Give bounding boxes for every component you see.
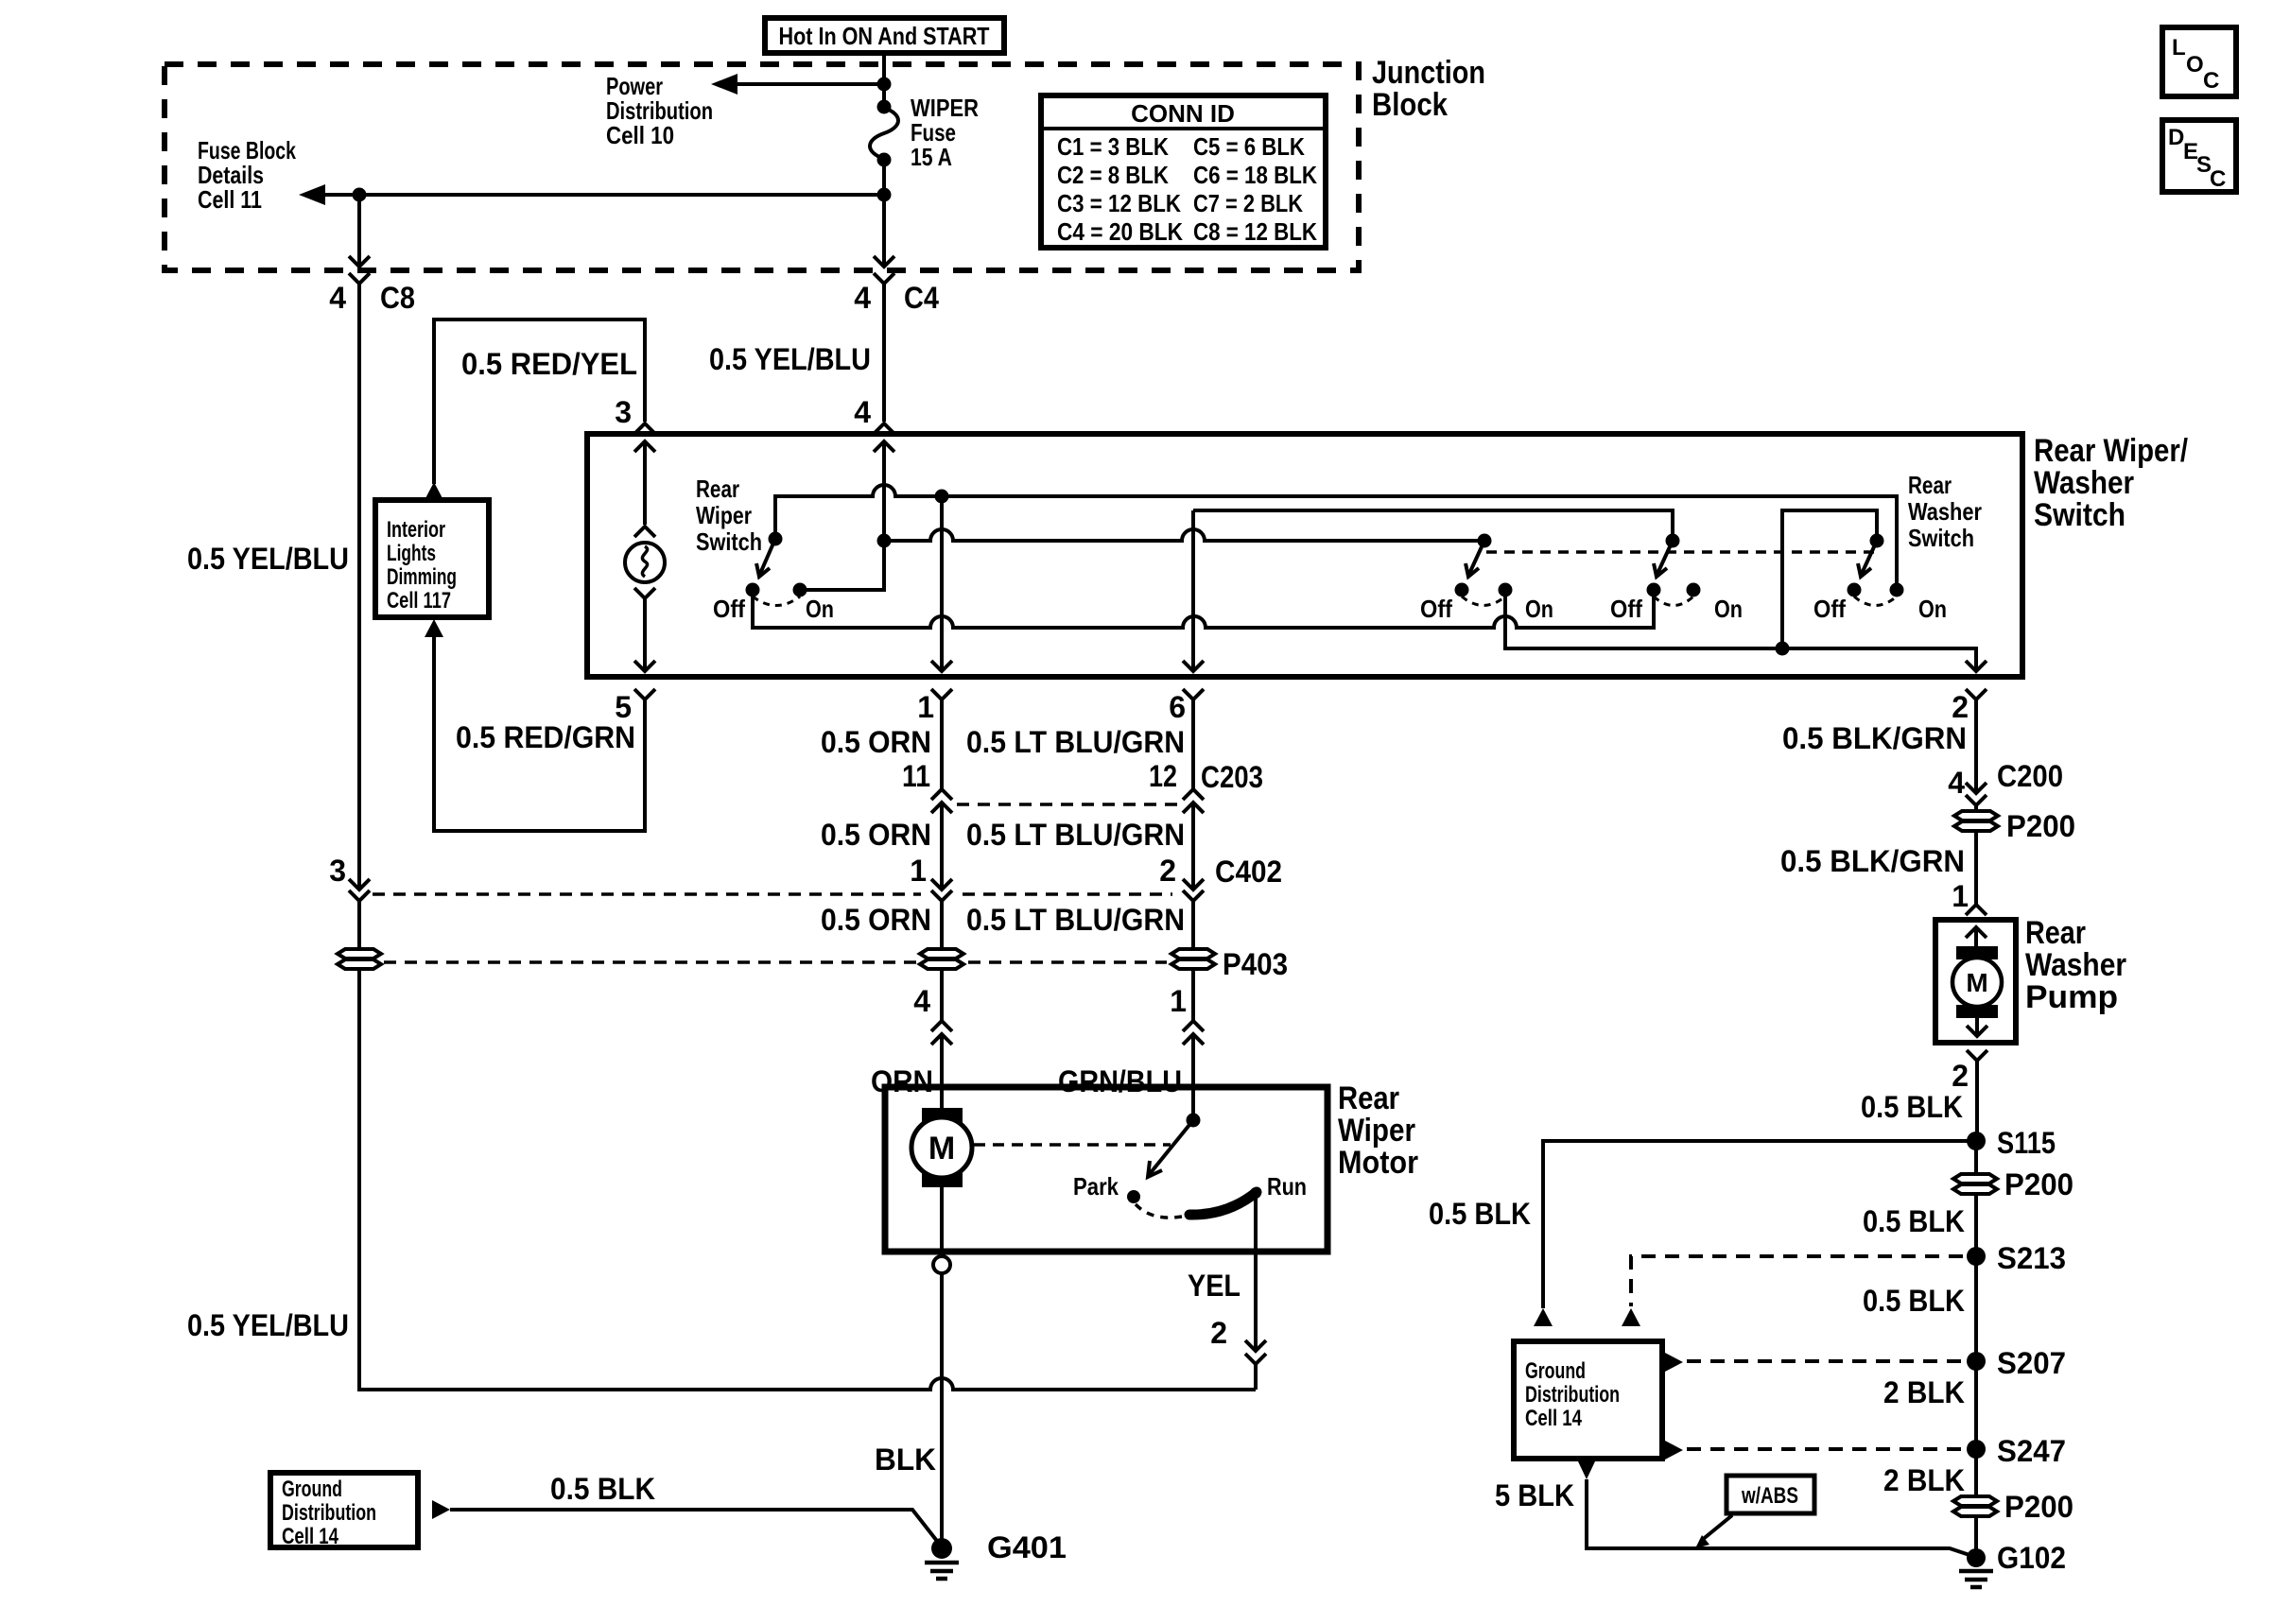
svg-text:C1 = 3 BLK: C1 = 3 BLK (1057, 132, 1169, 161)
box: Rear Wiper/Washer Switch (587, 434, 2022, 677)
connector motor pin 4 (931, 1021, 952, 1045)
switch B contacts (1610, 583, 1743, 624)
connector YEL pin 2 (1210, 1316, 1266, 1364)
svg-text:S115: S115 (1997, 1126, 2056, 1160)
svg-text:Rear: Rear (1338, 1080, 1399, 1116)
arrow down at junction block exit x935 (874, 256, 894, 267)
svg-text:P200: P200 (2006, 809, 2075, 843)
wire: fuse output down inside junction block (882, 160, 886, 267)
svg-text:Cell 117: Cell 117 (387, 588, 451, 613)
splice P403 on ORN (920, 949, 963, 969)
svg-text:Cell 11: Cell 11 (198, 185, 262, 214)
svg-text:ORN: ORN (871, 1064, 933, 1098)
svg-text:0.5 RED/YEL: 0.5 RED/YEL (461, 347, 637, 381)
svg-text:Rear: Rear (1908, 471, 1952, 499)
svg-text:Off: Off (1813, 595, 1846, 623)
node: power distribution tap (877, 78, 892, 92)
svg-text:15 A: 15 A (911, 143, 952, 171)
lamp: illumination lamp (625, 527, 665, 671)
node: rail2 junction on pin 4 (877, 534, 892, 548)
svg-text:BLK: BLK (875, 1443, 936, 1477)
svg-text:G102: G102 (1997, 1541, 2066, 1575)
wire: Off contact riser and rail 3 (hops at pin1, pin6, On-A riser) (753, 590, 1654, 628)
arrow out of ground box bottom (5 BLK) (1578, 1461, 1595, 1479)
wire: washer switch bracket to pivot C and output riser (1782, 510, 1877, 648)
svg-text:Cell 14: Cell 14 (1525, 1406, 1582, 1431)
svg-text:C8: C8 (380, 281, 415, 315)
svg-text:Motor: Motor (1338, 1145, 1418, 1181)
svg-text:1: 1 (910, 854, 927, 888)
svg-text:C: C (2203, 68, 2219, 94)
switch B arm (1654, 541, 1673, 577)
label: Rear Washer Switch (1908, 471, 1982, 552)
svg-text:0.5 BLK: 0.5 BLK (1429, 1197, 1531, 1231)
svg-text:1: 1 (1170, 984, 1187, 1018)
wire: pin 1 ORN down to C203 (940, 700, 944, 789)
svg-text:Wiper: Wiper (696, 501, 752, 529)
label box: w/ABS (1726, 1476, 1814, 1513)
dashed linkage between ganged switches (1486, 550, 1877, 554)
connector C402 pin 2 (1159, 854, 1204, 901)
wire: to S213 (1974, 1194, 1978, 1256)
park/run switch common (1148, 1087, 1201, 1177)
connector C203 pin 11 (902, 759, 952, 813)
connector C4 pin 4 (854, 273, 939, 315)
svg-text:Ground: Ground (1525, 1358, 1586, 1384)
svg-text:0.5 BLK/GRN: 0.5 BLK/GRN (1782, 721, 1967, 755)
wire: LT BLU/GRN C203 to C402 (1191, 803, 1195, 890)
svg-text:Park: Park (1073, 1172, 1119, 1201)
svg-text:5 BLK: 5 BLK (1495, 1478, 1574, 1512)
svg-text:C5 = 6 BLK: C5 = 6 BLK (1193, 132, 1305, 161)
node: fuse block tap (353, 188, 367, 202)
dashed pass-through line P403 (384, 960, 1167, 964)
svg-text:0.5 BLK: 0.5 BLK (1863, 1284, 1965, 1318)
arrow down at junction block exit x380 (349, 256, 370, 267)
wire: 0.5 RED/GRN loop pin 5 to Interior Lights box bottom (434, 637, 645, 831)
wire: 5 BLK to G102 (1587, 1479, 1972, 1556)
splice P403 on LT BLU/GRN (1171, 949, 1215, 969)
switch C arm (1858, 541, 1877, 577)
label: Rear Wiper Motor (1338, 1080, 1418, 1181)
wire: YEL/BLU below C402 (357, 901, 361, 951)
wire: LT BLU/GRN C402 to P403 (1191, 901, 1195, 951)
ground G102 (1959, 1541, 2066, 1587)
svg-text:Cell 10: Cell 10 (606, 121, 674, 149)
wire: S213 to S207 (1974, 1256, 1978, 1361)
svg-text:C203: C203 (1201, 760, 1263, 794)
svg-text:4: 4 (854, 281, 871, 315)
svg-text:L: L (2172, 35, 2186, 60)
dashed mechanical link motor to park switch (974, 1143, 1171, 1147)
wire: GRN/BLU into motor box (1191, 1034, 1195, 1087)
dashed connector line C203 (957, 803, 1178, 806)
rear wiper switch pivot riser and rail 1 (hop over pin4, to On-C) (775, 485, 1897, 590)
svg-text:0.5 YEL/BLU: 0.5 YEL/BLU (187, 542, 349, 576)
svg-text:0.5 ORN: 0.5 ORN (821, 725, 931, 759)
wire: ORN P403 to motor connector (940, 969, 944, 1021)
svg-text:12: 12 (1149, 759, 1177, 793)
wire: pin 2 BLK/GRN down to C200 (1974, 700, 1978, 793)
arrow up into Interior Lights box top (425, 482, 443, 500)
svg-text:P200: P200 (2004, 1490, 2073, 1524)
wire to P200 (1974, 805, 1978, 815)
box: Ground Distribution Cell 14 (left) (270, 1473, 418, 1549)
ground G401 (925, 1530, 1067, 1579)
wire pin 3 inside box with up arrow (634, 441, 655, 525)
pump motor symbol (1952, 927, 2002, 1036)
svg-text:C6 = 18 BLK: C6 = 18 BLK (1193, 161, 1317, 189)
svg-text:Dimming: Dimming (387, 564, 457, 590)
svg-text:YEL: YEL (1188, 1269, 1241, 1303)
connector pin 3 at switch box top (615, 395, 655, 434)
svg-text:Rear: Rear (696, 475, 739, 503)
arrow up into Interior Lights box bottom (425, 619, 443, 637)
svg-text:Washer: Washer (2034, 465, 2134, 501)
label: Rear Washer Pump (2025, 915, 2126, 1015)
run contact (thick arc) (1189, 1172, 1307, 1215)
wire: YEL from Run contact (1254, 1193, 1258, 1351)
svg-text:0.5 RED/GRN: 0.5 RED/GRN (456, 720, 635, 754)
svg-text:4: 4 (1948, 766, 1965, 800)
dashed wire to S207 (1687, 1359, 1963, 1363)
svg-text:0.5 BLK/GRN: 0.5 BLK/GRN (1780, 844, 1965, 878)
switch C pivot (rear washer switch) (1870, 534, 1884, 548)
splice S213 (1967, 1241, 2066, 1275)
svg-text:2: 2 (1159, 854, 1176, 888)
splice P200 (bottom) (1953, 1490, 2073, 1524)
svg-text:0.5 YEL/BLU: 0.5 YEL/BLU (709, 342, 871, 376)
svg-text:Washer: Washer (2025, 947, 2126, 983)
rear wiper switch arm (756, 539, 775, 577)
motor M symbol (911, 1087, 972, 1252)
connector pump pin 1 (1952, 879, 1987, 915)
wire arrow to Power Distribution (711, 74, 884, 95)
svg-text:Distribution: Distribution (282, 1500, 376, 1526)
arrow down pin 2 inside box (1966, 661, 1987, 671)
svg-text:w/ABS: w/ABS (1741, 1483, 1798, 1509)
svg-text:GRN/BLU: GRN/BLU (1058, 1064, 1182, 1098)
svg-text:Washer: Washer (1908, 497, 1982, 526)
svg-text:Rear Wiper/: Rear Wiper/ (2034, 433, 2188, 469)
connector pump pin 2 (1952, 1050, 1987, 1093)
svg-text:Interior: Interior (387, 517, 445, 543)
splice S207 (1967, 1346, 2066, 1380)
wire: On contact to pin 4 vertical (800, 441, 884, 590)
svg-text:S207: S207 (1997, 1346, 2066, 1380)
arrow down pin 1 inside box (931, 661, 952, 671)
svg-text:0.5 YEL/BLU: 0.5 YEL/BLU (187, 1308, 349, 1342)
svg-text:C7 = 2 BLK: C7 = 2 BLK (1193, 189, 1303, 217)
connector pin 6 below box (1169, 689, 1204, 724)
svg-text:1: 1 (917, 690, 934, 724)
svg-text:Block: Block (1372, 87, 1448, 123)
wire arrow to Fuse Block Details (299, 184, 884, 205)
splice P200 (middle) (1953, 1167, 2073, 1201)
splice P200 (top) (1954, 809, 2075, 843)
wire: BLK from motor to G401 (940, 1252, 944, 1541)
CONN ID table (1041, 95, 1326, 248)
label: Rear Wiper Switch (696, 475, 762, 556)
svg-text:4: 4 (854, 395, 871, 429)
dashed wire to S247 (1687, 1447, 1963, 1451)
switch A contacts (1420, 583, 1553, 624)
LOC box (2162, 27, 2236, 96)
svg-text:2 BLK: 2 BLK (1883, 1463, 1965, 1497)
svg-text:0.5 LT BLU/GRN: 0.5 LT BLU/GRN (966, 725, 1185, 759)
svg-text:2 BLK: 2 BLK (1883, 1375, 1965, 1409)
arrow from left ground box (432, 1500, 450, 1519)
connector pin 2 below box (1952, 689, 1987, 724)
svg-text:Cell 14: Cell 14 (282, 1524, 338, 1549)
wire: 0.5 YEL/BLU from C8 down left side (357, 284, 361, 890)
connector C8 pin 4 (329, 273, 415, 315)
svg-text:G401: G401 (987, 1530, 1067, 1564)
svg-text:0.5 BLK: 0.5 BLK (550, 1472, 655, 1506)
svg-text:S213: S213 (1997, 1241, 2066, 1275)
wire: BLK/GRN to pump (1974, 831, 1978, 905)
svg-text:3: 3 (615, 395, 632, 429)
svg-text:Ground: Ground (282, 1477, 342, 1502)
svg-text:Switch: Switch (696, 527, 762, 556)
svg-text:0.5 LT BLU/GRN: 0.5 LT BLU/GRN (966, 818, 1185, 852)
switch A pivot (1478, 534, 1492, 548)
connector pin 1 below box (917, 689, 952, 724)
svg-text:M: M (1966, 968, 1987, 997)
svg-text:11: 11 (902, 759, 930, 793)
wire: On-A output to pin 2 (1505, 590, 1976, 671)
node: fuse output (877, 188, 892, 202)
switch C contacts (1813, 583, 1947, 624)
wire: pin 6 LT BLU/GRN down to C203 (1191, 700, 1195, 789)
svg-text:Rear: Rear (2025, 915, 2086, 951)
svg-text:D: D (2168, 125, 2184, 150)
svg-text:Pump: Pump (2025, 979, 2118, 1015)
switch A arm (1466, 541, 1484, 577)
arrow out of ground box to S247 (1665, 1441, 1683, 1460)
svg-text:2: 2 (1952, 690, 1969, 724)
wire: YEL down to YEL/BLU return (1254, 1364, 1258, 1390)
rear wiper switch contacts Off / On (713, 583, 834, 624)
wire: S115 to P200 (1974, 1141, 1978, 1178)
svg-text:C3 = 12 BLK: C3 = 12 BLK (1057, 189, 1181, 217)
svg-text:0.5 BLK: 0.5 BLK (1863, 1204, 1965, 1238)
motor case ground: open circle (933, 1256, 950, 1273)
svg-text:0.5 ORN: 0.5 ORN (821, 818, 931, 852)
splice S247 (1967, 1434, 2066, 1468)
wire: S247 to P200 (1974, 1449, 1978, 1500)
svg-text:C402: C402 (1215, 855, 1282, 889)
svg-text:On: On (806, 595, 834, 623)
svg-text:On: On (1525, 595, 1553, 623)
svg-text:O: O (2186, 52, 2204, 78)
wire: pin 6 vertical inside box (1191, 510, 1195, 671)
svg-text:Off: Off (713, 595, 745, 623)
svg-text:Off: Off (1420, 595, 1452, 623)
label: Power Distribution Cell 10 (606, 72, 713, 149)
svg-text:4: 4 (913, 984, 930, 1018)
svg-text:0.5 ORN: 0.5 ORN (821, 903, 931, 937)
connector motor pin 1 (1183, 1021, 1204, 1045)
svg-text:Switch: Switch (1908, 524, 1974, 552)
wire: pin 4 from junction block (882, 284, 886, 422)
arrow up pin 4 inside box (874, 441, 894, 452)
svg-text:Switch: Switch (2034, 497, 2126, 533)
splice S115 (1967, 1126, 2056, 1160)
wire: C8 feed down inside junction block (357, 195, 361, 267)
label: Rear Wiper/Washer Switch (2034, 433, 2188, 533)
box: Rear Washer Pump (1935, 920, 2016, 1043)
svg-text:Off: Off (1610, 595, 1642, 623)
splice P403 on left YEL/BLU (338, 949, 381, 969)
svg-text:6: 6 (1169, 690, 1186, 724)
svg-text:On: On (1918, 595, 1947, 623)
svg-text:4: 4 (329, 281, 346, 315)
wire: S207 to S247 (1974, 1361, 1978, 1449)
connector pin 5 below switch box (615, 689, 655, 724)
svg-text:C8 = 12 BLK: C8 = 12 BLK (1193, 217, 1317, 246)
switch B pivot (1666, 534, 1680, 548)
svg-text:C200: C200 (1997, 759, 2063, 793)
wire: pin 6 rail to switch B pivot (1193, 510, 1673, 541)
connector C402 pin 3 (left column) (329, 854, 370, 901)
svg-text:CONN ID: CONN ID (1131, 99, 1235, 128)
svg-text:2: 2 (1210, 1316, 1227, 1350)
svg-text:2: 2 (1952, 1059, 1969, 1093)
svg-text:P200: P200 (2004, 1167, 2073, 1201)
connector C200 pin 4 (1948, 759, 2063, 805)
connector C402 pin 1 (910, 854, 952, 901)
dashed wire S213 to ground distribution (1631, 1256, 1963, 1306)
svg-text:C: C (2210, 166, 2226, 192)
svg-text:Distribution: Distribution (1525, 1382, 1620, 1408)
wire: 0.5 RED/YEL loop to pin 3 (434, 320, 645, 484)
rail 2: pin4 to switch A pivot (hops at pin1, pin6) (884, 529, 1484, 541)
label: Junction Block (1372, 55, 1485, 123)
svg-text:3: 3 (329, 854, 346, 888)
svg-text:0.5 LT BLU/GRN: 0.5 LT BLU/GRN (966, 903, 1185, 937)
arrow into ground distribution box (solid) (1534, 1308, 1553, 1326)
park contact (1073, 1172, 1182, 1218)
wire: ORN C203 to C402 (940, 803, 944, 890)
node: rear wiper switch pivot (769, 532, 783, 546)
svg-text:5: 5 (615, 690, 632, 724)
node: rail1 junction to pin 1 (935, 490, 949, 504)
junction block dashed box (165, 64, 1359, 270)
fuse: WIPER Fuse 15 A (870, 94, 979, 171)
wire: hot feed from Hot In box (882, 53, 886, 106)
svg-text:C4: C4 (904, 281, 939, 315)
arrow from w/ABS to 5 BLK wire (1695, 1515, 1732, 1548)
box: Rear Wiper Motor (885, 1087, 1327, 1252)
svg-text:Run: Run (1267, 1172, 1307, 1201)
svg-text:0.5 BLK: 0.5 BLK (1861, 1090, 1963, 1124)
svg-text:Wiper: Wiper (1338, 1113, 1415, 1149)
box: Interior Lights Dimming Cell 117 (375, 500, 489, 617)
DESC box (2162, 120, 2236, 192)
box: Ground Distribution Cell 14 (right) (1514, 1341, 1662, 1459)
dashed connector line C402 (373, 892, 1172, 896)
svg-text:C2 = 8 BLK: C2 = 8 BLK (1057, 161, 1169, 189)
svg-text:C4 = 20 BLK: C4 = 20 BLK (1057, 217, 1183, 246)
wire: 0.5 BLK to G401 (450, 1510, 940, 1545)
svg-text:Junction: Junction (1372, 55, 1485, 91)
svg-text:1: 1 (1952, 879, 1969, 913)
wire: GRN/BLU P403 to motor connector (1191, 969, 1195, 1021)
svg-text:M: M (928, 1131, 955, 1166)
connector pin 4 at switch box top (854, 395, 894, 434)
wire: ORN into motor box (940, 1034, 944, 1087)
connector C203 pin 12 (1149, 759, 1204, 813)
svg-text:Lights: Lights (387, 541, 436, 566)
wire: ORN C402 to P403 (940, 901, 944, 951)
wire: to G102 (1974, 1516, 1978, 1550)
node: washer output junction (1776, 642, 1790, 656)
svg-text:S247: S247 (1997, 1434, 2066, 1468)
arrow into ground distribution box (dashed branch) (1622, 1308, 1640, 1326)
svg-text:P403: P403 (1223, 947, 1288, 981)
svg-text:On: On (1714, 595, 1743, 623)
label: Fuse Block Details Cell 11 (198, 136, 296, 214)
arrow down pin 6 inside box (1183, 661, 1204, 671)
wire: 0.5 BLK pump to S115 (1975, 1061, 1979, 1141)
svg-text:Hot In ON And START: Hot In ON And START (779, 22, 990, 50)
label box: Hot In ON And START (765, 18, 1004, 53)
wire: YEL/BLU down and across to YEL riser (hop over BLK) (359, 969, 1256, 1390)
arrow out of ground box to S207 (1665, 1353, 1683, 1372)
wire: 0.5 BLK branch from S115 to ground distribution (1543, 1141, 1976, 1308)
wire: pin 1 vertical inside box (940, 496, 944, 671)
